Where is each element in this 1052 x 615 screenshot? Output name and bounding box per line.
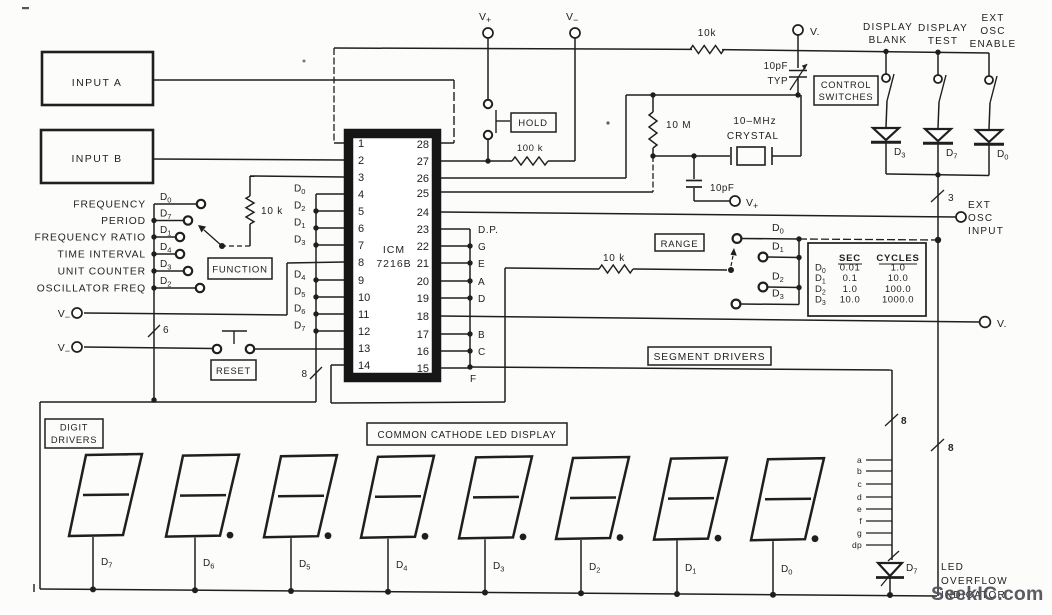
- svg-text:28: 28: [417, 139, 429, 151]
- segment ladder b: [866, 470, 892, 472]
- decimal point of digit D5: [325, 532, 332, 539]
- wire pin 27: [441, 160, 512, 162]
- segment ladder dp: [866, 544, 892, 546]
- node D2 pin stub: [316, 210, 344, 212]
- switch control 2: [935, 50, 940, 55]
- terminal V- (left 1): [72, 308, 82, 318]
- switch control 1: [883, 49, 888, 54]
- svg-text:8: 8: [358, 257, 364, 269]
- terminal V- (oscillator): [793, 25, 803, 35]
- node D5 pin stub: [316, 296, 344, 298]
- segment stub F: [441, 367, 470, 369]
- range contact D1: [759, 253, 768, 262]
- segment ladder c: [866, 483, 892, 485]
- svg-text:7216B: 7216B: [376, 258, 411, 270]
- range contact D0: [733, 234, 742, 243]
- scan speckles: [22, 7, 29, 9]
- svg-text:20: 20: [417, 276, 429, 288]
- svg-text:DISPLAY: DISPLAY: [863, 22, 913, 33]
- capacitor 10pF: [691, 153, 696, 158]
- DIGIT DRIVERS box: [45, 419, 103, 448]
- terminal V- (right): [980, 317, 991, 328]
- decimal point of digit D4: [422, 533, 429, 540]
- svg-text:100.0: 100.0: [885, 284, 911, 295]
- segment stub B: [441, 333, 470, 335]
- svg-text:E: E: [478, 259, 485, 270]
- wire pin 14: [331, 364, 344, 366]
- svg-text:2: 2: [358, 155, 364, 167]
- function contact D7: [151, 218, 156, 223]
- svg-text:RESET: RESET: [216, 366, 251, 376]
- svg-text:1.0: 1.0: [843, 284, 858, 295]
- svg-text:1000.0: 1000.0: [882, 295, 914, 306]
- wire INPUT B to pin 2: [153, 159, 344, 160]
- svg-text:9: 9: [358, 275, 364, 287]
- wire RESET to pin 13: [254, 348, 344, 350]
- svg-text:DRIVERS: DRIVERS: [51, 435, 97, 445]
- wire digit stub D1: [676, 541, 678, 594]
- wire V- to RESET switch: [84, 347, 213, 349]
- segment stub C: [441, 350, 470, 352]
- wire segment line to display: [470, 367, 892, 370]
- svg-text:100 k: 100 k: [517, 143, 543, 154]
- svg-text:8: 8: [901, 416, 907, 427]
- resistor 100k: [512, 157, 548, 165]
- svg-text:EXT: EXT: [968, 200, 991, 211]
- wire INPUT A to pin 28: [153, 79, 454, 81]
- resistor 10k (range): [599, 265, 633, 273]
- svg-text:5: 5: [358, 206, 364, 218]
- svg-text:FUNCTION: FUNCTION: [212, 265, 267, 276]
- svg-text:10 k: 10 k: [261, 206, 283, 217]
- svg-text:6: 6: [358, 223, 364, 235]
- svg-text:f: f: [859, 516, 862, 526]
- svg-text:27: 27: [417, 156, 429, 168]
- svg-text:a: a: [857, 455, 862, 465]
- svg-text:EXT: EXT: [981, 13, 1004, 24]
- svg-text:SEGMENT DRIVERS: SEGMENT DRIVERS: [654, 352, 766, 363]
- diode D3: [873, 128, 899, 140]
- svg-text:8: 8: [301, 369, 307, 380]
- wire digit stub D2: [580, 540, 582, 593]
- node D6 pin stub: [316, 313, 344, 315]
- svg-text:b: b: [857, 466, 862, 476]
- svg-text:PERIOD: PERIOD: [101, 216, 146, 227]
- segment stub D.P.: [441, 228, 470, 230]
- svg-text:g: g: [857, 528, 862, 538]
- bus slash 6: [148, 325, 160, 337]
- wire digit bus vertical: [315, 194, 317, 402]
- node D7 pin stub: [316, 330, 344, 332]
- wire pin 3 to 10k: [250, 176, 344, 177]
- terminal V+: [483, 28, 493, 38]
- crystal 10-MHz: [653, 155, 730, 157]
- wire digit stub D5: [290, 538, 292, 591]
- svg-text:INPUT A: INPUT A: [72, 77, 122, 89]
- svg-text:3: 3: [948, 193, 954, 204]
- function rotor: [219, 243, 225, 249]
- svg-text:16: 16: [417, 346, 429, 358]
- svg-text:10 M: 10 M: [666, 120, 691, 131]
- svg-text:TYP: TYP: [767, 76, 788, 87]
- wire digit bus left drop: [39, 402, 41, 589]
- segment stub E: [441, 262, 470, 264]
- wire HOLD to pin 27 node: [487, 139, 489, 161]
- wire top supply rail: [334, 48, 692, 49]
- svg-text:21: 21: [417, 258, 429, 270]
- node D0 pin stub: [316, 193, 344, 195]
- HOLD label box: [511, 113, 556, 132]
- wire crystal right riser: [800, 95, 802, 156]
- switch control 3: [988, 53, 990, 76]
- svg-text:10.0: 10.0: [840, 295, 861, 306]
- svg-text:22: 22: [417, 241, 429, 253]
- bus slash 8 (digit): [310, 367, 322, 379]
- svg-text:17: 17: [417, 329, 429, 341]
- bus slash 8 (right): [931, 439, 944, 451]
- svg-text:25: 25: [417, 188, 429, 200]
- svg-text:0.1: 0.1: [843, 273, 858, 284]
- svg-text:OSC: OSC: [980, 26, 1005, 37]
- wire digit stub D7: [92, 537, 94, 589]
- wire pin 8 to V-: [287, 262, 344, 263]
- function contact D1: [151, 234, 156, 239]
- svg-text:13: 13: [358, 343, 370, 355]
- CONTROL SWITCHES box: [814, 76, 878, 105]
- wire digit stub D4: [387, 539, 389, 592]
- diode D0: [976, 130, 1002, 142]
- wire riser to range 10k: [504, 268, 506, 402]
- svg-text:C: C: [478, 347, 486, 358]
- wire range D0 to control bus: [799, 239, 938, 240]
- svg-text:HOLD: HOLD: [518, 118, 548, 129]
- svg-text:e: e: [857, 504, 862, 514]
- svg-text:12: 12: [358, 326, 370, 338]
- wire pin 24 to EXT OSC INPUT: [441, 212, 956, 217]
- svg-text:V.: V.: [810, 26, 820, 38]
- wire function bus: [153, 204, 155, 399]
- svg-text:ENABLE: ENABLE: [970, 39, 1017, 50]
- svg-text:18: 18: [417, 311, 429, 323]
- svg-text:4: 4: [358, 189, 364, 201]
- segment ladder a: [866, 459, 892, 461]
- svg-text:19: 19: [417, 293, 429, 305]
- svg-text:G: G: [478, 242, 486, 253]
- COMMON CATHODE box: [367, 423, 567, 445]
- function contact D3: [151, 268, 156, 273]
- decimal point of digit D3: [520, 534, 527, 541]
- seven-segment display digit D4: [361, 456, 434, 538]
- segment ladder g: [866, 532, 892, 534]
- svg-text:7: 7: [358, 240, 364, 252]
- function contact D2: [151, 285, 156, 290]
- function contact D0: [154, 203, 197, 205]
- wire V+ to HOLD switch: [487, 38, 489, 100]
- wire V- down to 100k: [574, 38, 576, 161]
- wire pin 26 riser: [625, 95, 627, 178]
- svg-text:D: D: [478, 294, 486, 305]
- svg-text:INPUT B: INPUT B: [71, 153, 122, 165]
- terminal V- (top): [570, 28, 580, 38]
- wire pin 1 to top rail: [333, 48, 335, 143]
- seven-segment display digit D6: [166, 455, 239, 537]
- decimal point of digit D0: [812, 535, 819, 542]
- resistor 10M: [650, 92, 655, 97]
- node D3 pin stub: [316, 244, 344, 246]
- svg-text:TEST: TEST: [928, 36, 958, 47]
- SEGMENT DRIVERS box: [648, 347, 771, 365]
- segment ladder e: [866, 508, 892, 510]
- svg-text:CONTROL: CONTROL: [821, 80, 871, 90]
- segment stub G: [441, 245, 470, 247]
- svg-text:3: 3: [358, 172, 364, 184]
- svg-text:OSCILLATOR FREQ: OSCILLATOR FREQ: [37, 284, 146, 295]
- svg-text:SeekIC.com: SeekIC.com: [931, 583, 1044, 605]
- wire digit bus horizontal: [40, 401, 316, 403]
- decimal point of digit D2: [617, 534, 624, 541]
- wire crystal top rail: [626, 94, 798, 96]
- wire pin 25 riser: [652, 156, 654, 192]
- segment stub D: [441, 297, 470, 299]
- node D4 pin stub: [316, 279, 344, 281]
- switch RESET: [213, 345, 221, 353]
- wire 10k to function rotor: [249, 224, 251, 246]
- node crystal top: [795, 92, 800, 97]
- terminal V+ (crystal): [730, 196, 740, 206]
- range rotor: [728, 267, 734, 273]
- svg-text:23: 23: [417, 224, 429, 236]
- svg-text:OSC: OSC: [968, 213, 993, 224]
- svg-text:FREQUENCY RATIO: FREQUENCY RATIO: [34, 233, 146, 244]
- wire V- to trimmer: [797, 35, 799, 68]
- svg-text:RANGE: RANGE: [661, 239, 699, 250]
- seven-segment display digit D2: [556, 457, 629, 539]
- svg-text:COMMON CATHODE LED DISPLAY: COMMON CATHODE LED DISPLAY: [378, 430, 557, 441]
- seven-segment display digit D7: [69, 454, 142, 536]
- wire 10k to range rotor: [633, 269, 727, 270]
- RANGE label box: [655, 234, 704, 251]
- svg-text:BLANK: BLANK: [869, 35, 908, 46]
- trimmer capacitor 10pF TYP: [789, 70, 807, 72]
- decimal point of digit D6: [227, 532, 234, 539]
- svg-text:F: F: [470, 374, 477, 385]
- node function bus to digit bus: [151, 397, 156, 402]
- svg-text:SWITCHES: SWITCHES: [819, 92, 874, 102]
- range table box: [808, 243, 926, 316]
- wire control bus down (3): [937, 175, 939, 596]
- wire digit stub D6: [194, 538, 196, 591]
- svg-text:V.: V.: [997, 318, 1007, 330]
- range contact D2: [759, 283, 768, 292]
- resistor 10k (top rail): [690, 46, 724, 54]
- svg-text:FREQUENCY: FREQUENCY: [73, 200, 146, 211]
- bus slash 3: [931, 190, 944, 202]
- svg-text:26: 26: [417, 173, 429, 185]
- svg-text:D.P.: D.P.: [478, 225, 499, 236]
- input B box: [41, 130, 153, 183]
- wire 100k to V-: [548, 160, 575, 162]
- input A box: [42, 52, 153, 105]
- svg-text:INPUT: INPUT: [968, 226, 1004, 237]
- wire 10k range left: [505, 268, 599, 269]
- svg-text:6: 6: [163, 325, 169, 336]
- svg-text:LED: LED: [941, 562, 964, 573]
- svg-text:UNIT COUNTER: UNIT COUNTER: [58, 267, 146, 278]
- svg-text:0.01: 0.01: [840, 263, 861, 274]
- RESET label box: [211, 360, 256, 380]
- FUNCTION label box: [208, 258, 272, 279]
- seven-segment display digit D1: [654, 458, 727, 540]
- seven-segment display digit D0: [751, 458, 824, 540]
- svg-text:DISPLAY: DISPLAY: [918, 23, 968, 34]
- wire cap to V+ terminal: [694, 200, 730, 202]
- terminal EXT OSC INPUT: [956, 212, 966, 222]
- svg-text:DIGIT: DIGIT: [60, 423, 88, 433]
- svg-text:A: A: [478, 277, 485, 288]
- wire segment bus vertical: [469, 229, 471, 367]
- node crystal bottom: [650, 153, 655, 158]
- svg-text:10: 10: [358, 292, 370, 304]
- segment ladder f: [866, 520, 892, 522]
- decimal point of digit D1: [715, 535, 722, 542]
- svg-text:c: c: [857, 479, 862, 489]
- seven-segment display digit D5: [264, 455, 337, 537]
- wire digit common bus: [40, 589, 937, 596]
- svg-text:15: 15: [417, 363, 429, 375]
- svg-text:8: 8: [948, 443, 954, 454]
- segment ladder d: [866, 496, 892, 498]
- svg-text:14: 14: [358, 360, 370, 372]
- svg-text:10pF: 10pF: [710, 183, 734, 194]
- diode D7: [925, 129, 951, 141]
- svg-text:ICM: ICM: [383, 244, 405, 256]
- svg-text:11: 11: [358, 309, 369, 321]
- svg-text:TIME INTERVAL: TIME INTERVAL: [57, 250, 146, 261]
- IC U1 ICM7216B: [349, 134, 437, 378]
- wire pin 18 to V-: [441, 316, 980, 322]
- segment stub A: [441, 280, 470, 282]
- wire diode common rail: [886, 174, 989, 176]
- switch HOLD: [484, 100, 492, 108]
- terminal V- (left 2): [72, 342, 82, 352]
- svg-text:10pF: 10pF: [764, 61, 788, 72]
- svg-text:1: 1: [358, 138, 364, 150]
- wire digit stub D0: [772, 541, 774, 595]
- svg-text:10–MHz: 10–MHz: [733, 116, 776, 127]
- svg-text:10 k: 10 k: [603, 253, 625, 264]
- svg-text:24: 24: [417, 207, 429, 219]
- bus slash 8 (segment): [885, 414, 898, 426]
- node D1 pin stub: [316, 227, 344, 229]
- range contact D3: [732, 300, 741, 309]
- svg-text:1.0: 1.0: [891, 263, 906, 274]
- svg-text:dp: dp: [852, 540, 862, 550]
- function contact D4: [151, 251, 156, 256]
- seven-segment display digit D3: [459, 456, 532, 538]
- svg-text:B: B: [478, 330, 485, 341]
- LED overflow diode D7: [888, 551, 899, 561]
- wire range bus: [798, 239, 800, 305]
- wire digit stub D3: [484, 539, 486, 592]
- svg-text:CRYSTAL: CRYSTAL: [727, 131, 779, 142]
- svg-text:d: d: [857, 492, 862, 502]
- resistor 10k (function): [246, 196, 254, 224]
- svg-text:10.0: 10.0: [888, 273, 909, 284]
- svg-text:10k: 10k: [698, 28, 717, 39]
